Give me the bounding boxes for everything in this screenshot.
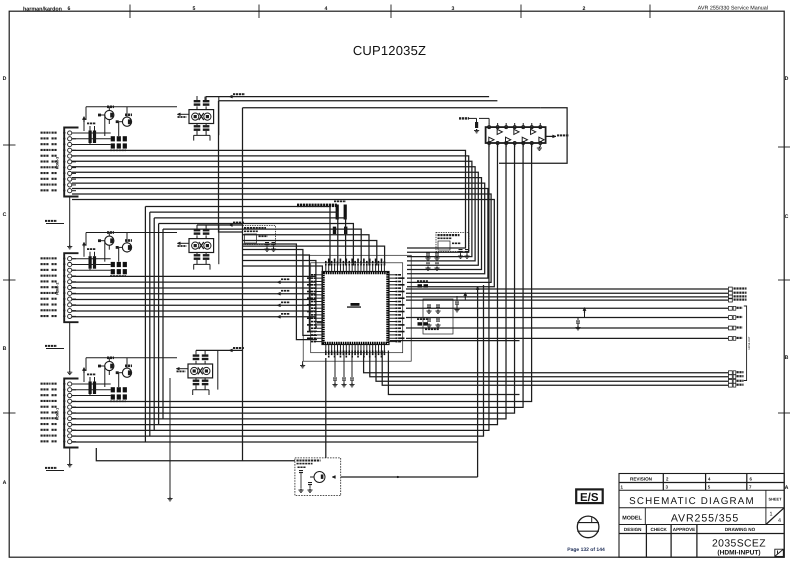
resistor pack RN5 on vertical lines bbox=[336, 205, 339, 220]
wires array QN2 bbox=[196, 225, 198, 229]
power arrow HDMI-2 bbox=[83, 245, 85, 248]
svg-text:C: C bbox=[3, 212, 7, 218]
connector HDMI-2 pin labels bbox=[41, 257, 43, 259]
transistor Q1B bbox=[122, 368, 131, 377]
buffer array U2 body bbox=[486, 127, 546, 143]
svg-text:AVR255/355: AVR255/355 bbox=[671, 512, 739, 524]
wire net at array N1 top bbox=[196, 349, 243, 351]
transistor array QN2 body bbox=[189, 239, 214, 253]
left net stub bbox=[46, 223, 64, 225]
main IC U1 pins bottom bbox=[325, 345, 327, 351]
main IC U1 pins right bbox=[389, 274, 396, 276]
ground HDMI-3 bbox=[69, 197, 71, 246]
wires HDMI-1 local bbox=[72, 383, 111, 385]
svg-text:D: D bbox=[3, 76, 7, 82]
capacitor cluster C3x bbox=[111, 136, 115, 141]
svg-text:B: B bbox=[785, 355, 789, 361]
title block outline bbox=[619, 474, 784, 558]
power net arrow at Q3B collector bbox=[126, 107, 128, 117]
connector HDMI-2 bracket bbox=[64, 253, 78, 322]
transistor Q1A bbox=[105, 361, 114, 370]
resistor R36 at buffer bbox=[459, 117, 461, 119]
oscillator box X1 bbox=[243, 226, 276, 245]
capacitor C52 with ground bbox=[577, 318, 579, 321]
capacitor C51 with ground bbox=[456, 296, 458, 301]
wire group IC right to tags 2 bbox=[406, 307, 728, 309]
svg-text:DRAWING NO: DRAWING NO bbox=[725, 527, 756, 532]
power net arrow at Q2B collector bbox=[126, 233, 128, 243]
zone tick marks right bbox=[778, 146, 790, 148]
net arrows on HDMI-2 lines bbox=[277, 281, 280, 284]
main IC U1 pins left bbox=[316, 274, 322, 276]
svg-text:2035SCEZ: 2035SCEZ bbox=[712, 538, 766, 549]
svg-text:HDMI-2: HDMI-2 bbox=[56, 283, 60, 295]
svg-text:CHECK: CHECK bbox=[651, 527, 668, 532]
capacitor cluster C1x bbox=[111, 387, 115, 392]
wire bottom box to right bbox=[341, 476, 478, 478]
wire bundle mid vertical to IC left lower bbox=[243, 244, 318, 340]
capacitors below IC with grounds bbox=[334, 351, 336, 378]
net tags group 2 bbox=[729, 306, 733, 310]
projection symbol bbox=[577, 516, 599, 538]
wire bundle HDMI-3 to right wrap bbox=[72, 150, 466, 248]
svg-text:DESIGN: DESIGN bbox=[624, 527, 642, 532]
wire group IC bottom to tags 3 bbox=[364, 351, 728, 373]
svg-text:C: C bbox=[785, 214, 789, 220]
wires array QN3 bbox=[196, 96, 198, 100]
E/S box bbox=[576, 489, 603, 503]
net label arrow at N1 bbox=[229, 349, 232, 352]
connector HDMI-1 pin labels bbox=[41, 383, 43, 385]
resistor pair RA2 bbox=[418, 322, 423, 325]
buffer array U2 pins bbox=[488, 126, 491, 129]
left net stub bbox=[46, 470, 64, 472]
bracket right bbox=[744, 306, 747, 381]
resistor array R31 R32 bbox=[89, 131, 92, 144]
net label arrow top1 bbox=[229, 95, 232, 98]
transistor array QN3 body bbox=[189, 110, 214, 124]
svg-text:APPROVE: APPROVE bbox=[673, 527, 695, 532]
junction dot bottom wire bbox=[397, 476, 399, 478]
connector HDMI-1 bracket bbox=[64, 379, 78, 448]
capacitors below array QN2 bbox=[194, 254, 201, 256]
ground HDMI-2 bbox=[69, 322, 71, 371]
capacitors near RN5 bbox=[333, 227, 336, 234]
long vertical wire x=477 bbox=[477, 292, 479, 477]
capacitor box right of IC bbox=[423, 299, 453, 334]
connector HDMI-2 pin circles bbox=[68, 257, 72, 261]
capacitors in bottom box bbox=[299, 470, 303, 471]
svg-text:E/S: E/S bbox=[580, 492, 599, 504]
buffer array U2 gates bbox=[489, 137, 494, 142]
transistor in bottom box bbox=[314, 472, 325, 483]
main IC U1 body bbox=[322, 272, 389, 345]
svg-text:4: 4 bbox=[778, 518, 781, 524]
resistor array R11 R12 bbox=[89, 382, 92, 395]
svg-text:MODEL: MODEL bbox=[622, 515, 642, 521]
transistor Q2A bbox=[105, 236, 114, 245]
wire loop top right bbox=[499, 108, 567, 164]
transistor Q2B bbox=[122, 243, 131, 252]
collector bus HDMI-3 bbox=[86, 106, 177, 108]
svg-text:6: 6 bbox=[68, 6, 71, 12]
wire IC bottom to loop bbox=[388, 351, 519, 395]
svg-text:Page 132 of 144: Page 132 of 144 bbox=[567, 547, 605, 553]
wire group IC right to tags 1 bbox=[406, 288, 728, 290]
bottom regulator box bbox=[295, 458, 341, 496]
power arrow near C52 bbox=[584, 310, 586, 313]
svg-text:REVISION: REVISION bbox=[630, 477, 653, 482]
svg-text:HDMI-3: HDMI-3 bbox=[56, 157, 60, 169]
power arrow near C51 bbox=[464, 295, 466, 298]
revision row bbox=[619, 482, 784, 484]
connector HDMI-3 bracket bbox=[64, 128, 78, 197]
net label arrow at N2 bbox=[229, 224, 232, 227]
svg-text:1: 1 bbox=[770, 512, 773, 518]
power net arrow at Q1B collector bbox=[126, 358, 128, 368]
svg-text:AVR 255/330 Service Manual: AVR 255/330 Service Manual bbox=[698, 6, 768, 12]
ground below IC left bbox=[302, 361, 304, 364]
svg-text:5: 5 bbox=[193, 6, 196, 12]
wire rectangle around IC outer bbox=[303, 255, 411, 361]
resistor pair RA1 bbox=[418, 284, 423, 287]
net arrow into bottom box bbox=[332, 476, 335, 479]
svg-text:2: 2 bbox=[583, 6, 586, 12]
main IC U1 reference label bbox=[351, 303, 360, 306]
capacitor cluster C2x bbox=[111, 262, 115, 267]
svg-text:4: 4 bbox=[325, 6, 328, 12]
vertical bus wire x=242 bbox=[242, 108, 244, 461]
resistor array R21 R22 bbox=[89, 256, 92, 269]
power arrow on x=477 wire bbox=[477, 289, 479, 292]
transistor Q3B bbox=[122, 117, 131, 126]
capacitors above array QN2 bbox=[194, 229, 201, 231]
wire horizontal y=340 bbox=[390, 340, 520, 342]
svg-text:SHEET: SHEET bbox=[769, 497, 783, 502]
net tags group 3 bbox=[729, 371, 733, 375]
capacitors above array QN3 bbox=[194, 100, 201, 102]
bus net name label bar bbox=[297, 204, 299, 208]
connector HDMI-3 pin circles bbox=[68, 131, 72, 135]
net arrow right of buffer bbox=[546, 135, 556, 137]
net arrow left of QN2 bbox=[177, 242, 180, 245]
ground HDMI-1 bbox=[69, 448, 71, 464]
wire bundle top distribution to IC bbox=[145, 207, 330, 266]
power arrow HDMI-3 bbox=[83, 119, 85, 122]
net arrow left of QN1 bbox=[176, 367, 179, 370]
svg-text:HDMI-OUT: HDMI-OUT bbox=[748, 336, 751, 349]
wire top net 3 bbox=[243, 107, 541, 109]
wire rectangle around IC inner bbox=[311, 263, 403, 353]
connector HDMI-3 pin labels bbox=[41, 132, 43, 134]
vertical wire x=218 bbox=[219, 101, 243, 232]
wires array QN1 bbox=[195, 350, 197, 354]
wire bundle HDMI-1 long lines bbox=[72, 143, 532, 402]
transistor Q3A bbox=[105, 110, 114, 119]
transistor array QN1 body bbox=[188, 364, 213, 378]
svg-text:B: B bbox=[3, 346, 7, 352]
left net stub bbox=[46, 348, 64, 350]
collector bus HDMI-2 bbox=[86, 232, 177, 234]
capacitors above array QN1 bbox=[193, 354, 200, 356]
capacitors at X1 bbox=[265, 242, 269, 243]
wire net at array N2 top bbox=[197, 224, 243, 226]
svg-text:A: A bbox=[3, 480, 7, 486]
capacitors below array QN3 bbox=[194, 125, 201, 127]
net tags group 1 bbox=[729, 287, 733, 291]
wire top net 1 bbox=[206, 96, 489, 98]
wire top net 2 bbox=[219, 100, 498, 102]
connector HDMI-1 pin circles bbox=[68, 382, 72, 386]
ground at buffer bbox=[538, 147, 540, 149]
svg-text:3: 3 bbox=[452, 6, 455, 12]
collector bus HDMI-1 bbox=[86, 357, 177, 359]
svg-text:harman/kardon: harman/kardon bbox=[23, 6, 62, 12]
main IC U1 pins top bbox=[325, 266, 327, 272]
svg-text:D: D bbox=[785, 76, 789, 82]
sheet 1/4 cell bbox=[766, 508, 784, 525]
capacitors at X2 left bbox=[426, 253, 430, 254]
zone tick marks left bbox=[3, 144, 16, 146]
wires HDMI-2 local bbox=[72, 258, 111, 260]
design check approve header row bbox=[619, 533, 784, 535]
capacitors below array QN1 bbox=[193, 380, 200, 382]
schematic diagram row bbox=[619, 507, 784, 509]
vertical wire left low bbox=[169, 378, 171, 497]
svg-text:(HDMI-INPUT): (HDMI-INPUT) bbox=[717, 549, 760, 556]
svg-text:A: A bbox=[785, 485, 789, 491]
vertical from IC to bottom box bbox=[325, 358, 327, 458]
zone tick marks top bbox=[129, 5, 131, 19]
capacitors at X2 bbox=[459, 249, 463, 250]
wire bundle HDMI-2 to IC left bbox=[72, 275, 316, 277]
wires HDMI-3 local bbox=[72, 132, 111, 134]
svg-text:HDMI-1: HDMI-1 bbox=[56, 408, 60, 420]
corner revision box bbox=[775, 549, 784, 556]
power arrow HDMI-1 bbox=[83, 370, 85, 373]
oscillator box X2 bbox=[436, 233, 469, 252]
wire to bottom box left bbox=[96, 448, 295, 461]
model row bbox=[619, 524, 784, 526]
svg-text:CUP12035Z: CUP12035Z bbox=[353, 43, 426, 58]
svg-text:SCHEMATIC DIAGRAM: SCHEMATIC DIAGRAM bbox=[629, 496, 755, 507]
net arrow left of QN3 bbox=[177, 113, 180, 116]
